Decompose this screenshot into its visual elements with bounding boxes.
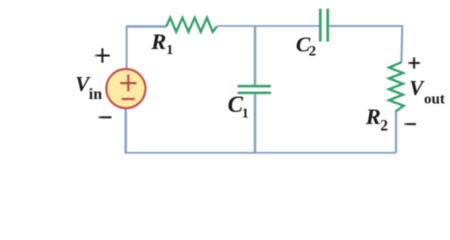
svg-text:1: 1 [166, 43, 173, 58]
svg-text:1: 1 [242, 107, 249, 122]
svg-text:in: in [89, 86, 102, 103]
svg-text:out: out [424, 91, 445, 107]
svg-text:R: R [150, 29, 166, 54]
svg-text:V: V [409, 76, 425, 100]
svg-text:R: R [365, 104, 381, 129]
svg-text:2: 2 [380, 118, 388, 135]
svg-text:2: 2 [309, 44, 317, 60]
